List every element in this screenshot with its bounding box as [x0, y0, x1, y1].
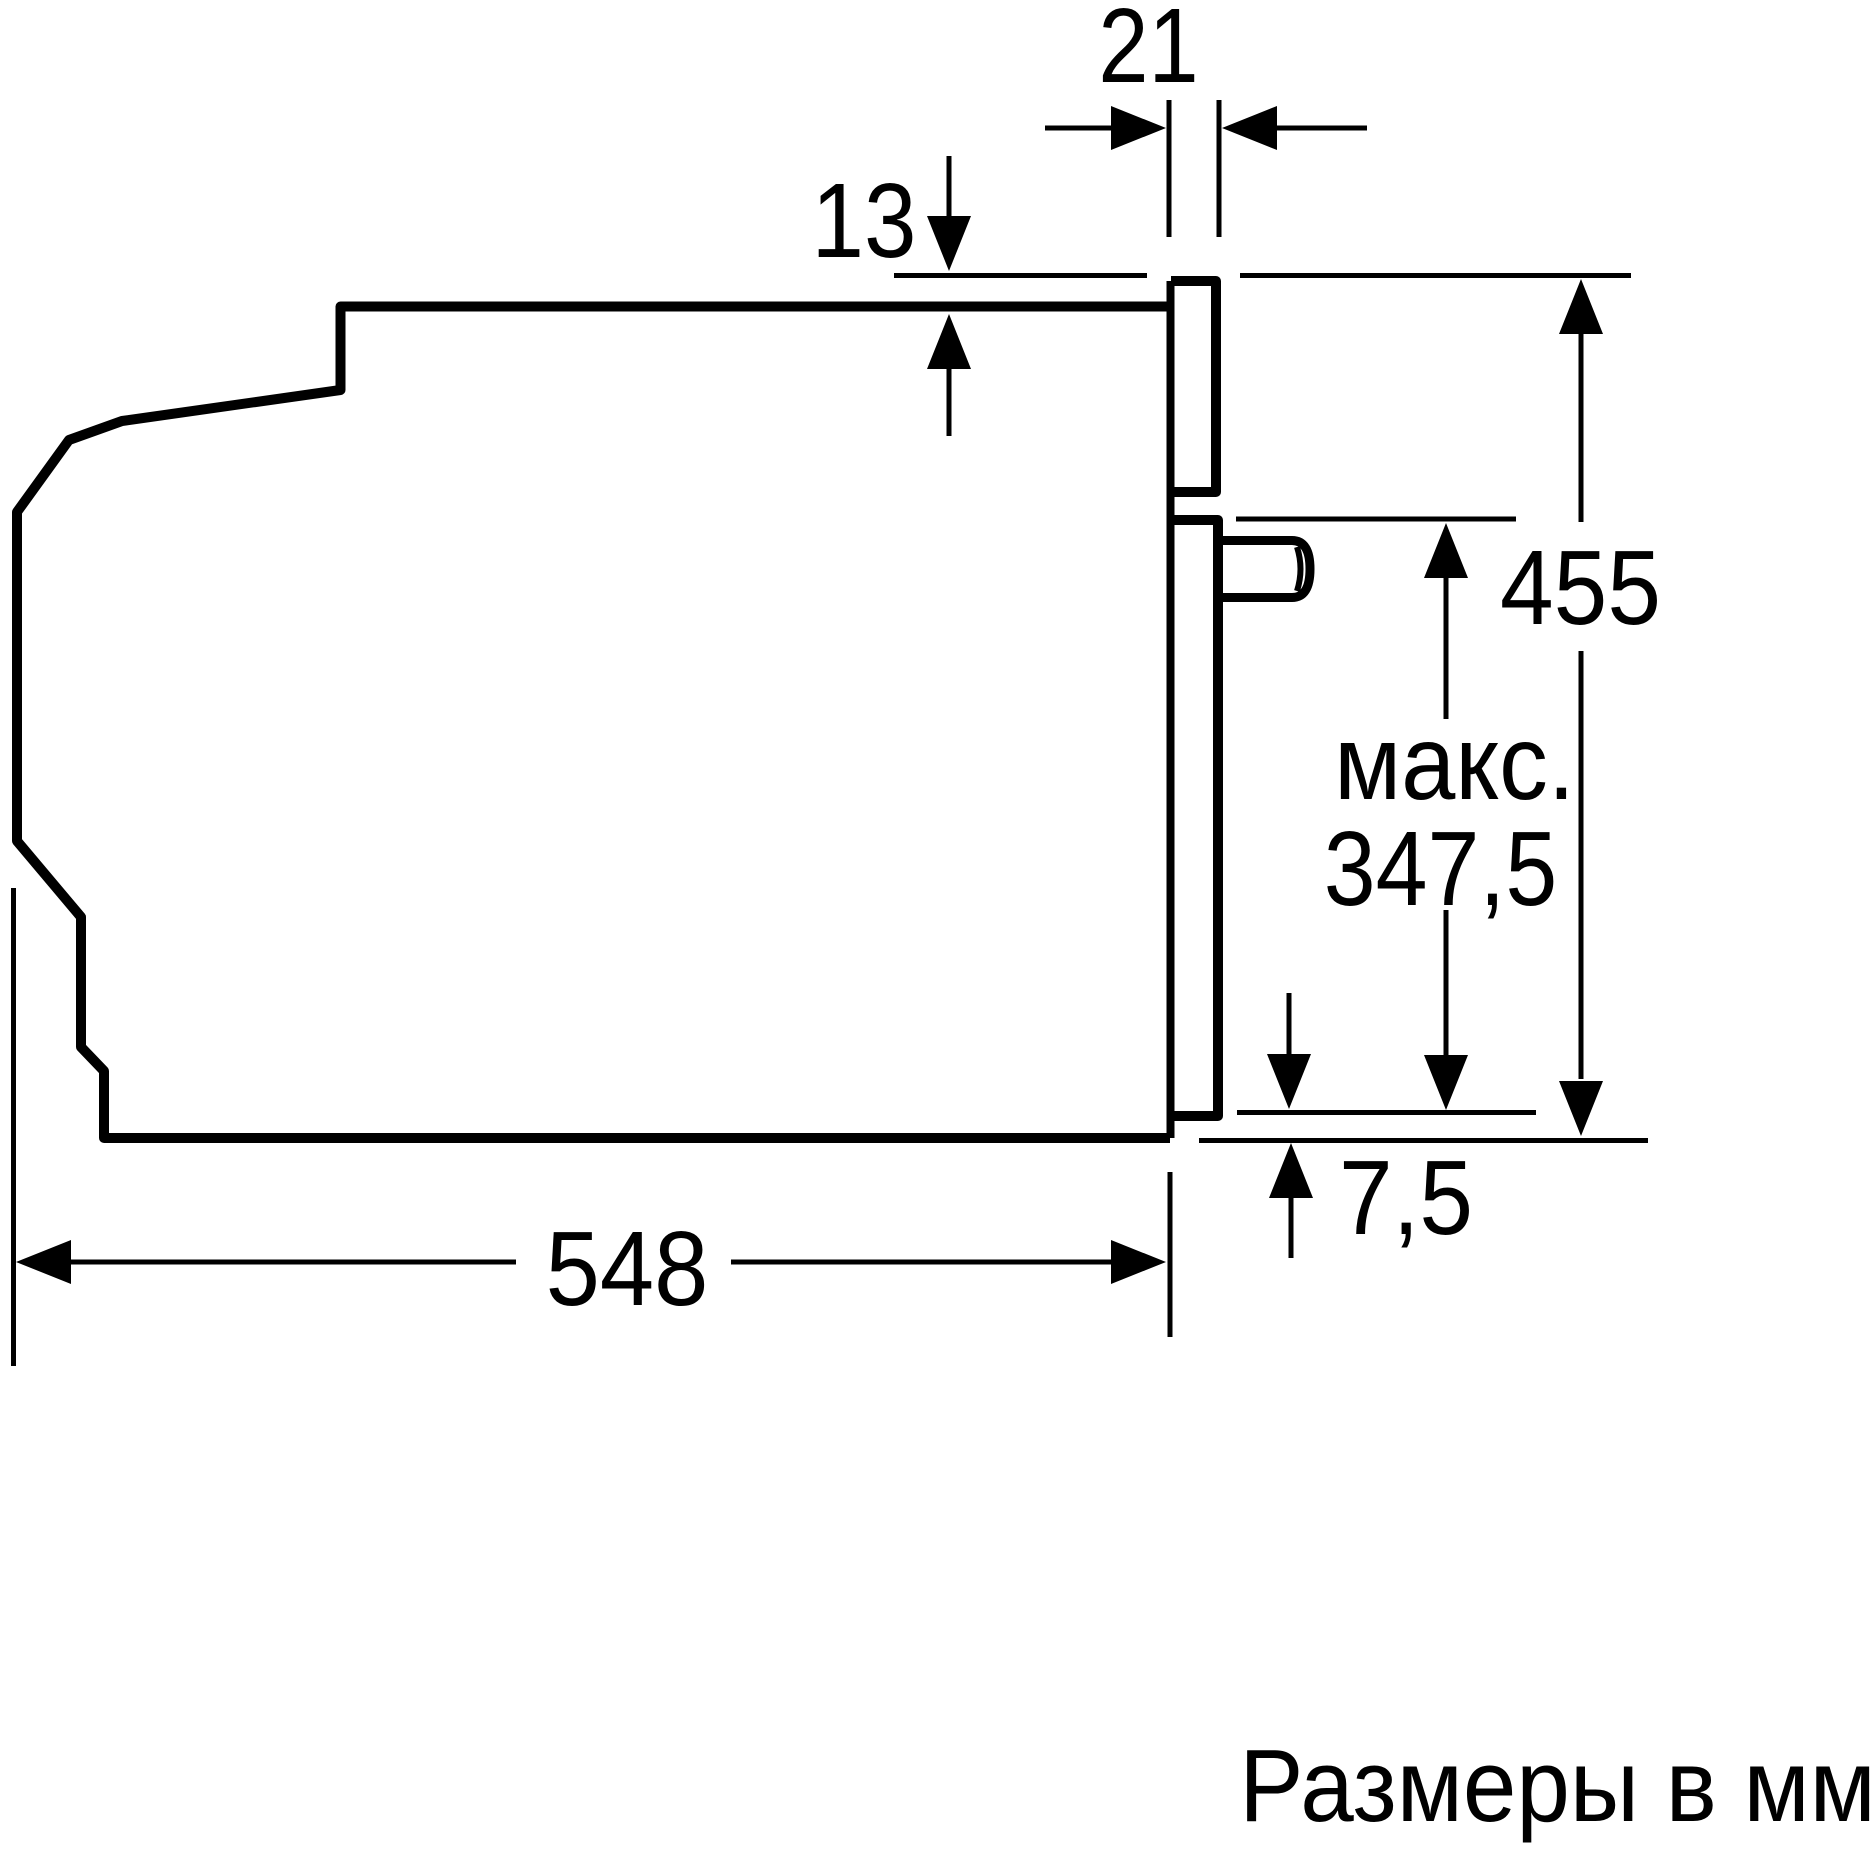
svg-text:13: 13 — [812, 162, 917, 280]
svg-text:21: 21 — [1098, 0, 1198, 105]
svg-text:7,5: 7,5 — [1339, 1139, 1473, 1257]
svg-text:Размеры в мм: Размеры в мм — [1239, 1729, 1876, 1844]
svg-text:548: 548 — [546, 1209, 709, 1328]
svg-text:455: 455 — [1500, 529, 1661, 647]
svg-text:347,5: 347,5 — [1324, 811, 1557, 929]
svg-text:макс.: макс. — [1334, 703, 1575, 822]
